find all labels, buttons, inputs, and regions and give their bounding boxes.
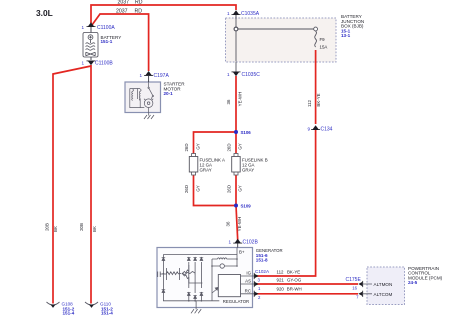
svg-text:S106: S106 bbox=[241, 130, 252, 135]
connector C1100A bbox=[81, 22, 115, 31]
wire label 20B BK left wire bbox=[45, 223, 59, 232]
svg-text:BK-YE: BK-YE bbox=[316, 93, 321, 106]
svg-text:YE-WH: YE-WH bbox=[238, 92, 243, 107]
PCM label bbox=[408, 266, 443, 285]
svg-text:1: 1 bbox=[227, 11, 230, 16]
wire label 26D GY below fuselink A bbox=[184, 185, 201, 193]
svg-text:26D: 26D bbox=[227, 185, 232, 193]
svg-text:921: 921 bbox=[277, 278, 285, 283]
wire battery negative left branch bbox=[53, 66, 91, 304]
svg-text:GY: GY bbox=[196, 143, 201, 149]
svg-text:112: 112 bbox=[277, 270, 285, 275]
PCM box outline bbox=[367, 267, 405, 305]
phase columns bbox=[189, 262, 202, 301]
generator lamp and choke branch bbox=[212, 255, 237, 301]
svg-text:BR-WH: BR-WH bbox=[287, 287, 302, 292]
battery junction box BJB outline bbox=[226, 18, 337, 62]
svg-text:C1100B: C1100B bbox=[95, 61, 113, 67]
wire 2037 RD battery to starter motor bbox=[92, 14, 149, 71]
wire label 112 BK-YE vertical bbox=[307, 93, 321, 107]
svg-text:GRAY: GRAY bbox=[242, 168, 254, 173]
generator negative diodes bbox=[162, 289, 204, 298]
connector C102A bbox=[254, 269, 270, 300]
svg-text:C102A: C102A bbox=[255, 269, 270, 274]
svg-text:C1100A: C1100A bbox=[97, 25, 115, 31]
wire 921 GY-OG generator AS to PCM ALTMON bbox=[256, 283, 358, 285]
wire fuselink B bottom to S109 bbox=[235, 175, 237, 206]
wire 920 BR-WH generator RC to PCM ALTCOM bbox=[256, 293, 358, 295]
svg-text:AS: AS bbox=[245, 279, 251, 284]
generator stator windings bbox=[182, 265, 202, 283]
svg-text:20B: 20B bbox=[79, 223, 84, 231]
svg-text:RC: RC bbox=[245, 288, 251, 293]
svg-text:C175E: C175E bbox=[346, 277, 362, 283]
svg-text:16: 16 bbox=[352, 285, 357, 290]
svg-text:26D: 26D bbox=[184, 185, 189, 193]
svg-text:36: 36 bbox=[226, 99, 231, 104]
generator regulator bbox=[218, 275, 249, 305]
svg-text:RD: RD bbox=[135, 8, 143, 14]
wire C134 to generator IG pin, circuit 112 BK-YE bbox=[256, 130, 316, 276]
svg-text:24-5: 24-5 bbox=[408, 280, 418, 285]
svg-text:F9: F9 bbox=[320, 37, 326, 42]
junction S109 bbox=[234, 204, 251, 209]
svg-text:BK-YE: BK-YE bbox=[287, 270, 300, 275]
svg-text:20-1: 20-1 bbox=[164, 91, 174, 96]
generator ground bbox=[191, 301, 201, 314]
svg-text:151-4: 151-4 bbox=[63, 311, 75, 316]
wire C1035C to S106 and fuselink B, circuit 36 YE-WH bbox=[235, 76, 237, 154]
generator label bbox=[256, 248, 283, 263]
svg-text:26D: 26D bbox=[227, 143, 232, 151]
svg-text:151-4: 151-4 bbox=[101, 311, 113, 316]
wire label 20B BK right wire bbox=[79, 223, 97, 232]
generator transistor arrow bbox=[212, 287, 218, 293]
wire 2037 RD battery to BJB top run bbox=[91, 5, 236, 23]
ground G108 bbox=[47, 302, 75, 316]
svg-text:S109: S109 bbox=[241, 204, 252, 209]
BJB internal bus bbox=[234, 19, 317, 62]
generator pins IG AS RC bbox=[241, 271, 255, 294]
svg-text:2037: 2037 bbox=[116, 8, 128, 14]
connector C1035A bbox=[227, 10, 260, 18]
connector C102B bbox=[228, 239, 258, 248]
svg-text:20B: 20B bbox=[45, 223, 50, 231]
wire label 26D GY above fuselink A bbox=[184, 143, 201, 151]
svg-text:15A: 15A bbox=[320, 45, 328, 50]
PCM pins ALTMON ALTCOM bbox=[367, 282, 392, 297]
B+ pin bbox=[236, 248, 238, 255]
svg-text:BK: BK bbox=[53, 226, 58, 232]
wire fuse F9 output down to C134, circuit 112 BK-YE bbox=[315, 50, 317, 124]
svg-text:151-1: 151-1 bbox=[101, 39, 113, 44]
svg-text:36: 36 bbox=[226, 221, 231, 226]
ground G110 bbox=[85, 302, 113, 316]
generator box outline bbox=[157, 248, 253, 308]
connector C1100B bbox=[81, 61, 113, 67]
svg-text:2037: 2037 bbox=[118, 0, 130, 5]
wire S109 to generator C102B, circuit 36 YE-WH bbox=[236, 206, 238, 241]
fuse F9 15A bbox=[315, 31, 328, 50]
generator internals bbox=[163, 248, 237, 301]
wire battery negative right drop bbox=[90, 65, 92, 304]
connector C197A bbox=[139, 71, 169, 82]
bottom rail bbox=[163, 300, 219, 302]
svg-text:C134: C134 bbox=[321, 127, 333, 133]
BJB label bbox=[341, 14, 364, 38]
svg-text:1: 1 bbox=[228, 240, 231, 245]
generator positive diodes bbox=[162, 257, 204, 260]
wire label 36 YE-WH upper bbox=[226, 92, 243, 107]
svg-text:9: 9 bbox=[307, 127, 310, 132]
svg-text:C1035C: C1035C bbox=[242, 72, 261, 78]
svg-text:1: 1 bbox=[81, 25, 84, 30]
svg-text:112: 112 bbox=[307, 99, 312, 107]
svg-text:26D: 26D bbox=[184, 143, 189, 151]
connector C175E at PCM bbox=[346, 277, 368, 299]
connector C134 bbox=[307, 125, 332, 132]
svg-text:GY: GY bbox=[238, 185, 243, 191]
svg-text:1: 1 bbox=[227, 72, 230, 77]
svg-text:IG: IG bbox=[246, 271, 251, 276]
svg-text:GY-OG: GY-OG bbox=[287, 278, 302, 283]
svg-text:3.0L: 3.0L bbox=[36, 8, 53, 18]
svg-text:GRAY: GRAY bbox=[200, 168, 212, 173]
svg-text:920: 920 bbox=[277, 287, 285, 292]
connector C1035C bbox=[227, 62, 260, 78]
svg-text:1: 1 bbox=[81, 61, 84, 66]
svg-text:151-8: 151-8 bbox=[256, 258, 268, 263]
svg-text:ALTCOM: ALTCOM bbox=[374, 292, 393, 297]
svg-text:B+: B+ bbox=[239, 250, 245, 255]
svg-text:YE-WH: YE-WH bbox=[237, 217, 242, 232]
wire label 36 YE-WH lower bbox=[226, 217, 243, 232]
svg-text:1: 1 bbox=[139, 73, 142, 78]
starter motor internals bbox=[130, 82, 154, 113]
starter motor box outline bbox=[125, 82, 161, 113]
wire label 26D GY above fuselink B bbox=[227, 143, 243, 151]
wire S106 to fuselink A top bbox=[194, 132, 237, 154]
svg-text:C197A: C197A bbox=[154, 73, 170, 79]
left column bbox=[162, 255, 164, 301]
svg-text:13-1: 13-1 bbox=[341, 33, 351, 38]
battery symbol bbox=[83, 33, 98, 58]
battery internal stubs bbox=[90, 27, 92, 60]
wire fuselink A bottom to S109 bbox=[194, 175, 237, 206]
fusible link B bbox=[232, 154, 268, 176]
svg-text:BK: BK bbox=[92, 226, 97, 232]
generator field coil and capacitor bbox=[158, 268, 181, 280]
svg-text:C102B: C102B bbox=[243, 240, 259, 246]
starter motor chassis ground bbox=[144, 113, 154, 120]
svg-text:ALTMON: ALTMON bbox=[374, 282, 393, 287]
svg-text:GY: GY bbox=[238, 143, 243, 149]
svg-text:REGULATOR: REGULATOR bbox=[223, 299, 249, 304]
fusible link A bbox=[189, 154, 225, 176]
svg-text:RD: RD bbox=[135, 0, 143, 5]
junction S106 bbox=[234, 130, 251, 135]
wire label 26D GY below fuselink B bbox=[227, 185, 243, 193]
svg-text:GY: GY bbox=[196, 185, 201, 191]
svg-text:C1035A: C1035A bbox=[241, 11, 260, 17]
